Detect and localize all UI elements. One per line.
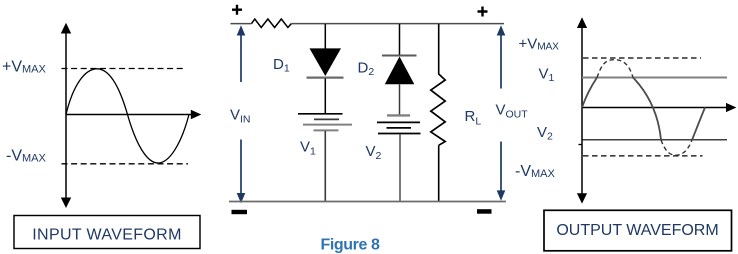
svg-text:+VMAX: +VMAX: [2, 58, 47, 75]
svg-text:V2: V2: [366, 143, 382, 162]
svg-text:D1: D1: [273, 56, 290, 75]
svg-text:RL: RL: [465, 108, 482, 128]
svg-text:INPUT WAVEFORM: INPUT WAVEFORM: [32, 227, 182, 244]
svg-text:VIN: VIN: [230, 107, 251, 126]
svg-text:V2: V2: [537, 124, 553, 143]
svg-text:D2: D2: [358, 59, 375, 78]
svg-text:-VMAX: -VMAX: [6, 148, 47, 165]
svg-text:Figure 8: Figure 8: [321, 237, 381, 254]
svg-text:V1: V1: [300, 138, 316, 157]
svg-text:V1: V1: [539, 66, 555, 85]
svg-text:-VMAX: -VMAX: [515, 163, 556, 180]
svg-text:VOUT: VOUT: [496, 102, 529, 121]
svg-text:OUTPUT WAVEFORM: OUTPUT WAVEFORM: [556, 222, 718, 239]
svg-text:+VMAX: +VMAX: [519, 36, 560, 53]
